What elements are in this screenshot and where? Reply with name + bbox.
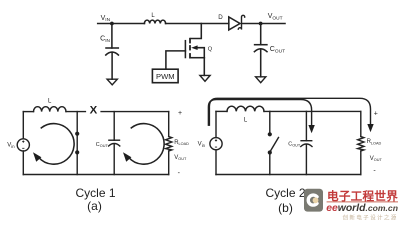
switch branch upper wire (cycle2) <box>269 111 271 132</box>
svg-text:OUT: OUT <box>100 144 109 148</box>
svg-text:eeworld.com.cn: eeworld.com.cn <box>326 203 398 214</box>
label V_in (cycle1) <box>7 143 15 149</box>
wire: cycle1 bottom rail <box>23 174 168 176</box>
svg-text:X: X <box>90 104 98 116</box>
current flow arc to C_OUT (inner) <box>208 100 314 134</box>
svg-text:Cycle 1: Cycle 1 <box>75 186 115 200</box>
switch blade open (cycle2) <box>271 138 279 151</box>
source V_in (cycle2) <box>210 138 222 150</box>
label V_IN <box>101 15 111 23</box>
PWM box <box>152 69 178 83</box>
switch contact dot lower <box>75 150 79 154</box>
svg-text:OUT: OUT <box>275 48 285 54</box>
svg-text:创新电子设计之源: 创新电子设计之源 <box>343 214 398 222</box>
logo rule <box>327 201 398 203</box>
svg-text:LOAD: LOAD <box>179 142 190 146</box>
ground (C_IN) <box>107 79 117 85</box>
logo url <box>326 203 398 214</box>
svg-text:(a): (a) <box>87 199 102 213</box>
switch contact dot upper (cycle2) <box>268 132 272 136</box>
logo icon C <box>308 195 317 205</box>
svg-text:D: D <box>218 14 223 21</box>
wire: cycle1 top rail right <box>101 111 169 113</box>
svg-text:+: + <box>374 110 378 117</box>
logo icon square <box>304 189 323 212</box>
wire: cycle2 right edge <box>360 111 362 174</box>
wire: cycle2 bottom rail <box>216 174 361 176</box>
resistor R_LOAD (cycle2) <box>358 137 364 152</box>
label V_OUT (cycle2) <box>370 156 383 162</box>
current loop arrow right (cycle1) <box>123 124 164 165</box>
wire: cycle2 top rail left <box>216 110 227 112</box>
svg-text:电子工程世界: 电子工程世界 <box>327 189 398 203</box>
svg-text:PWM: PWM <box>156 72 175 81</box>
inductor L (cycle2) <box>227 106 264 111</box>
wire: cycle1 right edge <box>168 112 170 175</box>
wire: drain riser <box>190 24 201 39</box>
node: Vin junction dot <box>110 22 114 26</box>
ground (C_OUT) <box>256 77 266 83</box>
logo icon dot <box>313 197 319 203</box>
svg-text:OUT: OUT <box>178 157 187 161</box>
svg-text:(b): (b) <box>278 201 293 215</box>
inductor L (top) <box>144 20 165 23</box>
capacitor C_IN <box>106 24 119 80</box>
capacitor C_OUT branch (cycle1) <box>109 112 120 175</box>
svg-text:OUT: OUT <box>292 144 301 148</box>
label C_OUT (cycle1) <box>96 142 109 148</box>
switch branch (closed) <box>76 112 78 175</box>
svg-text:IN: IN <box>105 38 110 44</box>
wire: cycle1 left edge <box>22 112 24 175</box>
capacitor C_OUT (top) <box>254 24 267 77</box>
svg-text:OUT: OUT <box>374 158 383 162</box>
source V_in (cycle1) <box>17 139 29 151</box>
label C_OUT (cycle2) <box>288 141 301 147</box>
diode D (Schottky) <box>229 15 245 30</box>
label R_LOAD (cycle1) <box>174 140 189 146</box>
resistor R_LOAD (cycle1) <box>166 137 172 152</box>
svg-text:LOAD: LOAD <box>371 141 382 145</box>
label C_OUT (top) <box>270 46 285 54</box>
svg-text:OUT: OUT <box>272 15 282 21</box>
current loop arrow left (cycle1) <box>33 124 74 165</box>
wire: diode to Vout <box>243 23 285 25</box>
switch contact dot upper <box>75 132 79 136</box>
svg-text:Q: Q <box>208 46 213 52</box>
svg-text:+: + <box>178 110 182 117</box>
wire: inductor to diode <box>166 23 229 25</box>
svg-text:Cycle 2: Cycle 2 <box>265 186 305 200</box>
svg-text:IN: IN <box>105 17 110 23</box>
transistor Q (NMOS) <box>166 38 204 76</box>
switch contact dot lower (cycle2) <box>268 150 272 154</box>
label R_LOAD (cycle2) <box>367 139 382 145</box>
inductor L (cycle1) <box>34 107 66 112</box>
label V_OUT (cycle1) <box>174 155 187 161</box>
capacitor C_OUT branch (cycle2) <box>301 111 312 174</box>
node: Vout junction dot <box>259 22 263 26</box>
ground (Q source) <box>200 75 210 81</box>
wire: Vin stub to inductor <box>98 23 145 25</box>
label C_IN <box>100 36 110 44</box>
label V_OUT <box>268 13 283 21</box>
current flow arc to R_LOAD (outer) <box>209 98 373 132</box>
label V_in (cycle2) <box>198 142 206 148</box>
wire: cycle1 top rail left <box>23 111 33 113</box>
wire: cycle2 left edge <box>215 111 217 174</box>
switch branch lower wire (cycle2) <box>269 154 271 175</box>
wire: cycle1 top rail to X <box>66 111 85 113</box>
wire: cycle2 top rail right <box>264 110 361 112</box>
